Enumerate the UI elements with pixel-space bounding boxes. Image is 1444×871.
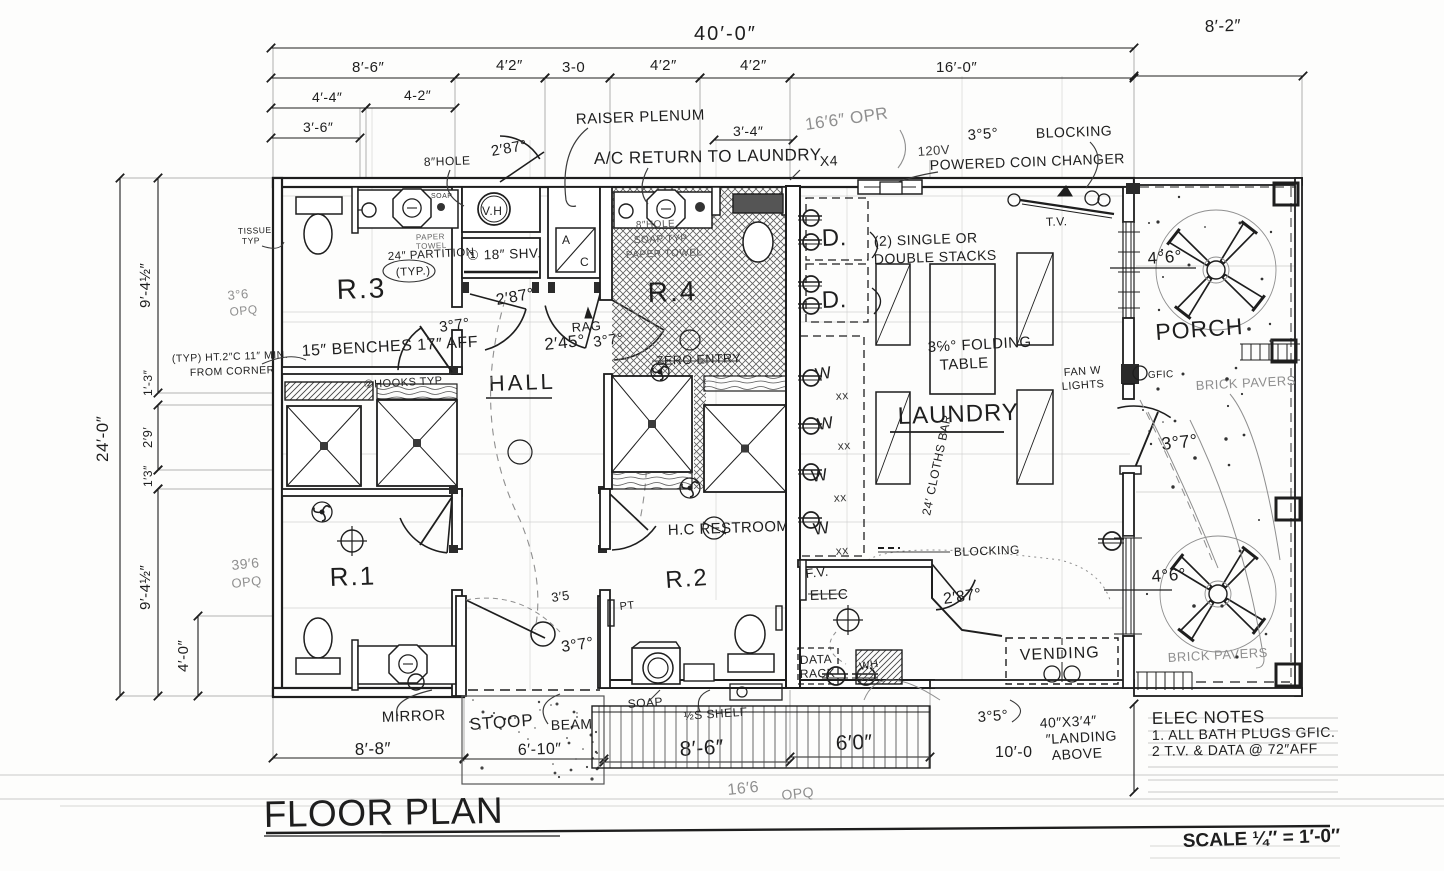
svg-text:ZERO ENTRY: ZERO ENTRY [656,351,742,368]
svg-text:xx: xx [835,388,849,403]
svg-text:R.4: R.4 [647,275,698,308]
svg-text:8″HOLE: 8″HOLE [424,153,471,169]
svg-text:xx: xx [835,543,849,558]
svg-text:D.: D. [821,224,847,252]
svg-text:6′-10″: 6′-10″ [518,740,562,759]
svg-text:8′-8″: 8′-8″ [354,739,391,759]
svg-text:9′-4½″: 9′-4½″ [137,262,154,308]
svg-text:(TYP.): (TYP.) [396,265,431,279]
svg-text:16′-0″: 16′-0″ [936,59,977,76]
svg-text:R.3: R.3 [336,272,387,305]
svg-text:V.H: V.H [482,204,502,218]
svg-text:① 18″ SHV.: ① 18″ SHV. [467,245,542,263]
svg-text:TYP: TYP [242,235,260,246]
svg-text:3′-4″: 3′-4″ [733,123,763,139]
svg-text:ABOVE: ABOVE [1051,744,1103,763]
svg-text:DATA: DATA [800,652,833,667]
svg-text:3°7°: 3°7° [1160,430,1198,454]
svg-text:BEAM: BEAM [551,716,593,733]
svg-text:4-2″: 4-2″ [404,87,431,103]
svg-text:39′6: 39′6 [231,554,261,573]
svg-text:4°6°: 4°6° [1151,565,1187,586]
svg-text:BLOCKING: BLOCKING [1036,122,1113,141]
svg-text:xx: xx [833,490,847,505]
svg-text:LAUNDRY: LAUNDRY [897,399,1019,430]
svg-text:HALL: HALL [488,369,556,396]
svg-text:A/C RETURN TO LAUNDRY: A/C RETURN TO LAUNDRY [594,145,822,168]
svg-text:GFIC: GFIC [1148,369,1174,381]
svg-text:W: W [810,465,829,486]
svg-text:4′-0″: 4′-0″ [175,640,192,672]
svg-text:OPQ: OPQ [231,573,263,591]
svg-text:T.V.: T.V. [1046,214,1068,229]
svg-text:4′-4″: 4′-4″ [312,89,342,105]
svg-text:PT: PT [619,599,635,613]
svg-text:C: C [580,255,589,269]
svg-text:4′2″: 4′2″ [496,57,523,74]
svg-text:2 T.V. & DATA @ 72″AFF: 2 T.V. & DATA @ 72″AFF [1152,740,1318,759]
svg-text:4′2″: 4′2″ [650,57,677,74]
svg-text:A: A [562,233,571,247]
svg-text:W: W [814,363,833,384]
svg-text:TABLE: TABLE [939,354,989,374]
svg-text:3′-6″: 3′-6″ [303,119,333,135]
svg-text:8′-2″: 8′-2″ [1204,16,1241,36]
svg-text:W: W [816,413,835,434]
svg-text:3°6: 3°6 [227,286,250,303]
svg-text:R.2: R.2 [665,564,710,594]
svg-text:1′-3″: 1′-3″ [141,369,155,396]
svg-text:TISSUE: TISSUE [238,225,272,236]
svg-text:TOWEL: TOWEL [416,241,447,251]
svg-text:R.1: R.1 [329,560,376,592]
svg-text:16′6: 16′6 [727,779,760,799]
svg-text:MIRROR: MIRROR [382,707,446,726]
svg-text:10′-0: 10′-0 [995,744,1033,761]
svg-text:8″HOLE: 8″HOLE [636,219,676,231]
svg-text:D.: D. [821,286,847,314]
svg-text:3-0: 3-0 [562,59,585,76]
svg-text:4′2″: 4′2″ [740,57,767,74]
svg-text:SOAP TYP: SOAP TYP [634,233,688,246]
svg-text:FLOOR PLAN: FLOOR PLAN [263,790,503,835]
svg-text:3°5°: 3°5° [967,125,999,144]
svg-text:OPQ: OPQ [781,784,815,803]
svg-text:SOAP: SOAP [431,193,452,200]
svg-text:40′-0″: 40′-0″ [694,23,757,45]
svg-text:BLOCKING: BLOCKING [954,543,1020,559]
svg-text:1′3″: 1′3″ [141,465,155,487]
svg-text:3′5: 3′5 [550,588,570,605]
svg-text:4°6°: 4°6° [1147,247,1183,268]
svg-text:9′-4½″: 9′-4½″ [137,564,154,610]
svg-text:OPQ: OPQ [229,302,258,319]
svg-text:2′9′: 2′9′ [140,427,155,448]
svg-text:3°5°: 3°5° [977,707,1009,726]
svg-text:8′-6″: 8′-6″ [352,59,384,76]
svg-text:xx: xx [837,438,851,453]
svg-text:X4: X4 [820,152,839,169]
svg-text:W: W [812,518,831,539]
svg-text:VENDING: VENDING [1020,644,1100,664]
svg-text:24′-0″: 24′-0″ [93,416,112,462]
